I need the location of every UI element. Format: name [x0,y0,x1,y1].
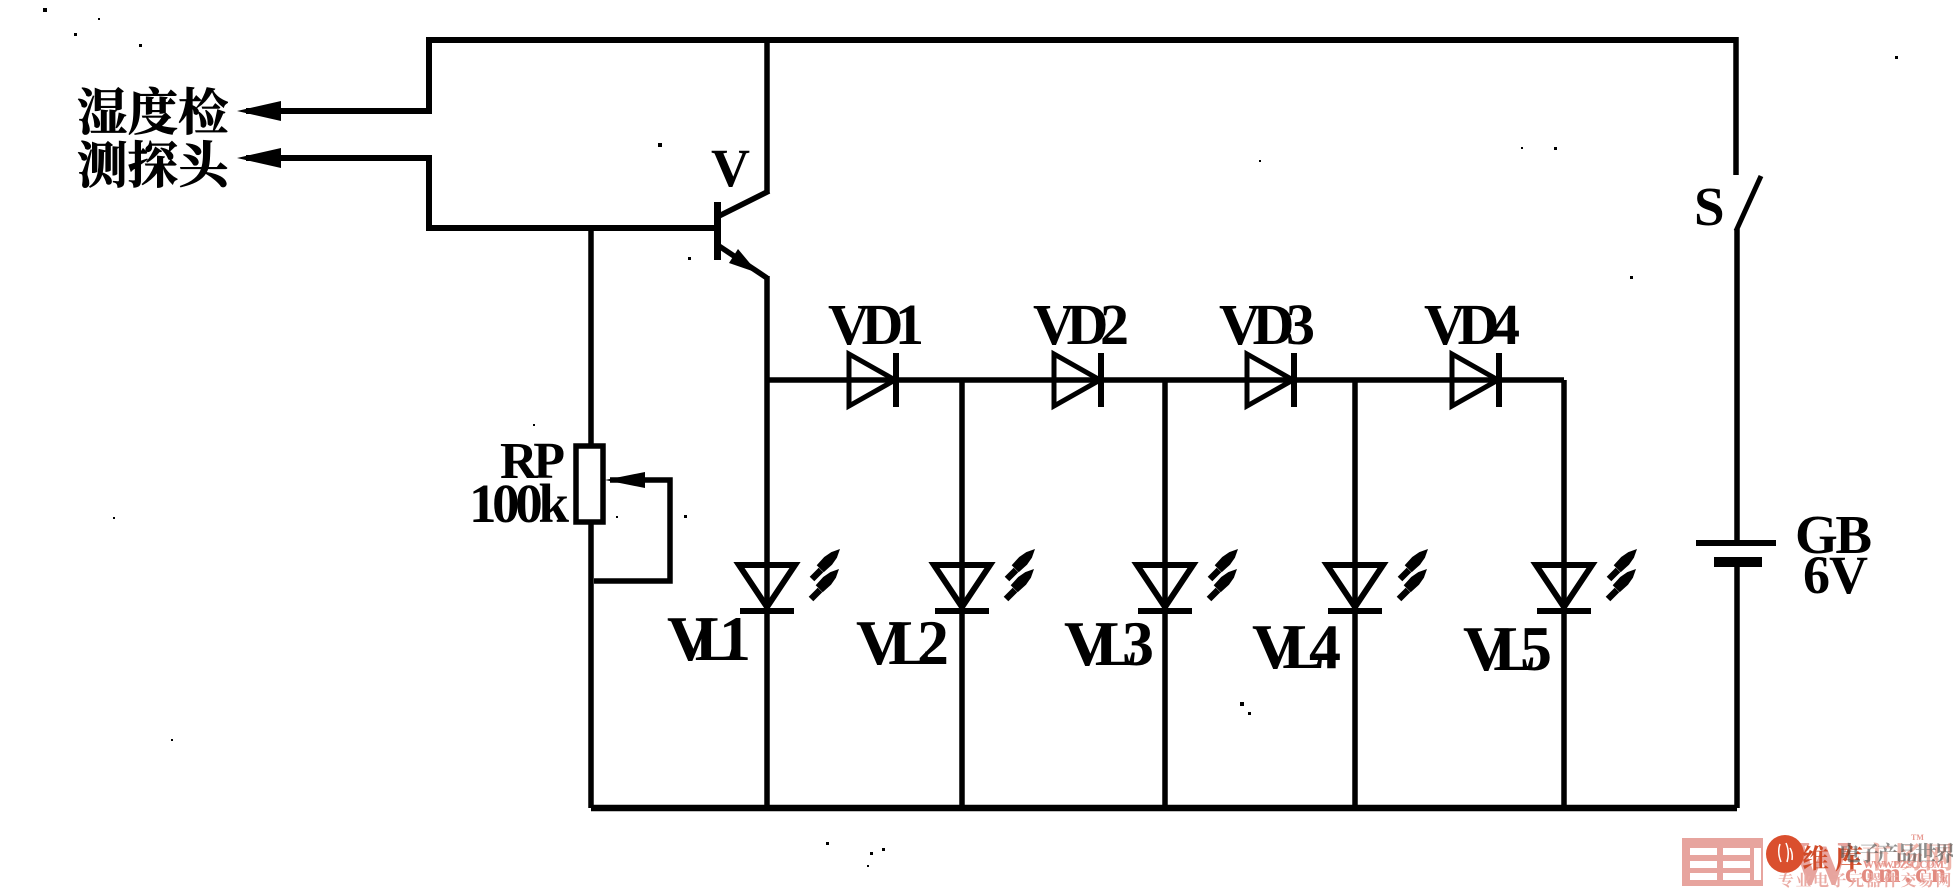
svg-text:VD2: VD2 [1033,292,1129,357]
svg-text:VL4: VL4 [1252,611,1341,682]
switch S [1736,176,1761,231]
label 湿度检 (humidity) [78,87,227,135]
LED VL4 [1327,549,1428,611]
battery GB [1696,543,1776,562]
wire RP to bottom rail [588,522,594,808]
wire top supply rail [429,37,1736,43]
wire branch VL5 [1561,380,1567,808]
LED VL1 [739,549,840,611]
wire branch VL2 [959,380,965,808]
svg-text:VL2: VL2 [856,607,949,678]
wire diode row [767,377,1564,383]
wire bottom rail [591,805,1737,812]
potentiometer RP [576,446,670,581]
wire probe lead 1 [246,37,429,111]
wire switch to battery [1734,229,1740,541]
wire branch VL3 [1162,380,1168,808]
LED VL3 [1137,549,1238,611]
svg-text:V: V [711,138,750,198]
svg-text:VD1: VD1 [828,292,924,357]
svg-text:S: S [1694,176,1725,237]
wire battery to bottom rail [1734,562,1740,808]
svg-text:VD4: VD4 [1424,292,1520,357]
svg-text:VL5: VL5 [1463,613,1552,684]
diode VD3 [1247,353,1294,407]
label 测探头 (detection probe) [78,140,227,187]
probe arrow 1 [237,101,281,121]
svg-text:100k: 100k [469,473,569,534]
svg-text:VL3: VL3 [1064,608,1154,679]
watermark dzsc/EEPW logo [1682,830,1953,888]
wire emitter down [764,276,770,380]
diode VD2 [1054,353,1101,407]
svg-text:TM: TM [1911,833,1924,842]
wire rail to switch [1733,37,1739,175]
wire branch VL1 [764,380,770,808]
LED VL5 [1536,549,1637,611]
wire branch VL4 [1352,380,1358,808]
svg-text:VL1: VL1 [667,603,751,674]
probe arrow 2 [237,148,281,168]
svg-text:6V: 6V [1803,545,1868,605]
wire probe lead 2 / base wire [246,158,714,228]
wire collector to rail [764,37,770,193]
svg-text:VD3: VD3 [1219,292,1315,357]
transistor V [714,191,769,278]
diode VD4 [1452,353,1499,407]
LED VL2 [934,549,1035,611]
wire base node to RP [588,228,594,447]
diode VD1 [849,353,896,407]
